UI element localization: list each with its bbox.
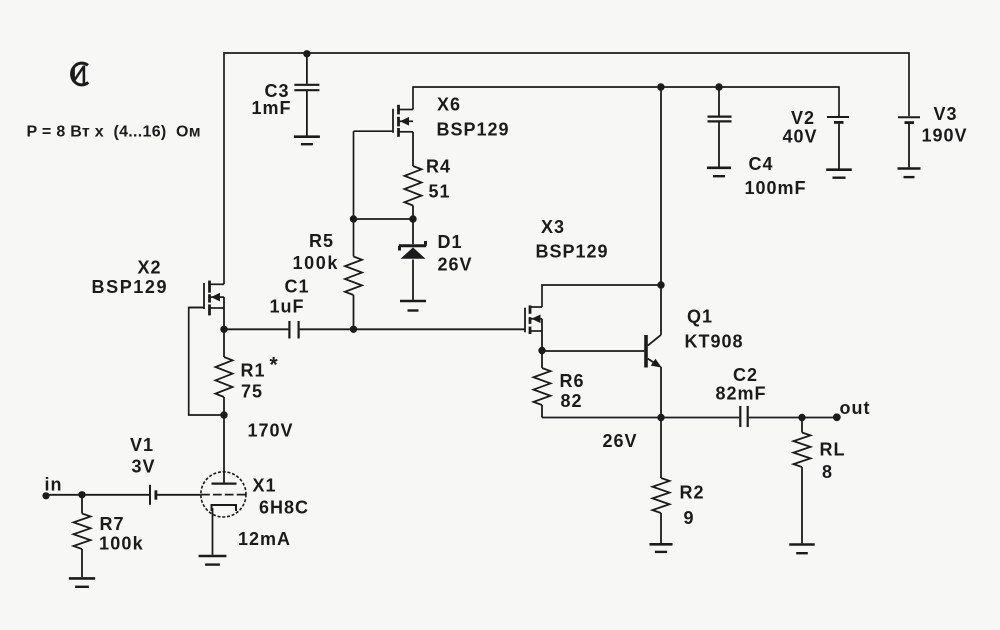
svg-text:40V: 40V [783, 127, 818, 147]
svg-text:51: 51 [429, 182, 451, 202]
svg-text:100k: 100k [99, 534, 144, 554]
svg-text:R1: R1 [241, 361, 266, 381]
svg-text:26V: 26V [438, 255, 473, 275]
svg-text:Q1: Q1 [687, 307, 713, 327]
svg-text:R7: R7 [100, 514, 125, 534]
svg-text:6H8C: 6H8C [259, 498, 309, 518]
svg-text:75: 75 [241, 382, 263, 402]
svg-text:C1: C1 [285, 277, 310, 297]
svg-text:9: 9 [684, 508, 695, 528]
svg-text:82mF: 82mF [716, 384, 767, 404]
svg-text:V2: V2 [791, 108, 815, 128]
svg-text:C4: C4 [749, 154, 774, 174]
svg-text:C2: C2 [733, 365, 758, 385]
svg-text:BSP129: BSP129 [92, 277, 169, 297]
svg-text:V1: V1 [130, 435, 154, 455]
svg-text:100mF: 100mF [745, 178, 807, 198]
svg-text:in: in [45, 475, 63, 495]
svg-text:170V: 170V [248, 421, 294, 441]
svg-text:P = 8 Вт х (4...16) Ом: P = 8 Вт х (4...16) Ом [27, 124, 201, 141]
svg-text:KT908: KT908 [685, 332, 744, 352]
svg-text:8: 8 [822, 462, 833, 482]
svg-text:100k: 100k [293, 253, 339, 273]
svg-text:26V: 26V [603, 431, 638, 451]
svg-text:V3: V3 [934, 104, 958, 124]
svg-text:X3: X3 [541, 217, 565, 237]
svg-text:3V: 3V [132, 457, 156, 477]
svg-text:X1: X1 [253, 476, 277, 496]
svg-text:12mA: 12mA [238, 529, 291, 549]
svg-text:BSP129: BSP129 [536, 242, 609, 262]
svg-text:X6: X6 [437, 95, 461, 115]
svg-text:D1: D1 [438, 232, 463, 252]
svg-text:82: 82 [561, 391, 583, 411]
svg-text:190V: 190V [922, 126, 968, 146]
svg-text:1uF: 1uF [270, 297, 305, 317]
svg-text:*: * [270, 354, 279, 377]
svg-text:out: out [840, 398, 871, 418]
svg-text:BSP129: BSP129 [437, 120, 510, 140]
svg-text:1mF: 1mF [252, 98, 292, 118]
svg-text:R5: R5 [309, 231, 334, 251]
svg-text:R6: R6 [560, 371, 585, 391]
svg-text:RL: RL [820, 440, 846, 460]
svg-text:R4: R4 [426, 157, 451, 177]
svg-text:R2: R2 [680, 483, 705, 503]
svg-text:X2: X2 [138, 258, 162, 278]
